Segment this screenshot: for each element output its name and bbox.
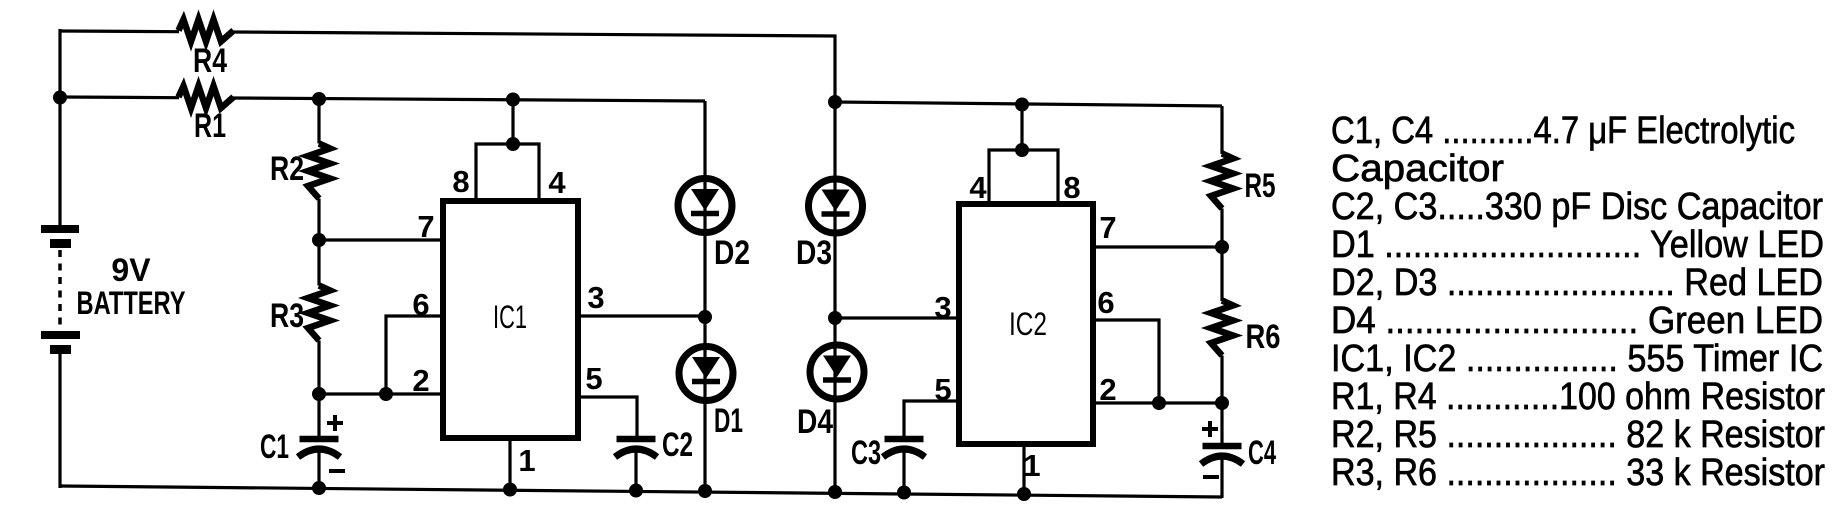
- node pin6-pin2 junction: [379, 387, 393, 401]
- wire R2 to R3 and IC1 pin7 junction: [317, 199, 320, 286]
- wire R5 to R6 lead: [1220, 209, 1223, 302]
- node V+ rail at R2: [312, 92, 326, 106]
- wire D3/D4 column: [833, 102, 836, 493]
- svg-text:R1: R1: [194, 107, 226, 145]
- svg-text:R3: R3: [270, 297, 304, 335]
- svg-text:3: 3: [587, 280, 604, 315]
- LED D2: [678, 179, 750, 273]
- svg-text:4: 4: [969, 170, 987, 205]
- svg-text:R1, R4 ............100 ohm Res: R1, R4 ............100 ohm Resistor: [1331, 376, 1825, 418]
- node V+ rail at IC1 feed: [506, 93, 520, 107]
- svg-text:5: 5: [585, 361, 602, 396]
- svg-text:IC2: IC2: [1009, 306, 1047, 342]
- wire IC1 pin3 line: [576, 314, 705, 317]
- capacitor C4 4.7uF electrolytic: [1201, 421, 1276, 477]
- wire IC2 pin6 bracket to pin2: [1091, 320, 1159, 403]
- svg-text:R2: R2: [270, 150, 304, 188]
- svg-text:IC1, IC2 ................ 555: IC1, IC2 ................ 555 Timer IC: [1331, 338, 1823, 380]
- svg-text:1: 1: [518, 443, 535, 478]
- resistor R1: [179, 86, 234, 145]
- wire IC1 pin5 line: [576, 397, 637, 436]
- svg-text:1: 1: [1023, 448, 1040, 483]
- svg-text:C4: C4: [1248, 434, 1276, 472]
- svg-text:C2, C3.....330 pF Disc Capacit: C2, C3.....330 pF Disc Capacitor: [1331, 186, 1823, 228]
- svg-text:R5: R5: [1245, 167, 1276, 205]
- node ground rail at D1: [698, 484, 712, 498]
- svg-text:R4: R4: [193, 42, 227, 80]
- svg-text:R3, R6 .................. 33 k: R3, R6 .................. 33 k Resistor: [1331, 452, 1825, 494]
- svg-text:IC1: IC1: [493, 299, 527, 335]
- wire left vertical battery top: [58, 29, 61, 226]
- wire IC2 pin2 line: [1091, 401, 1222, 404]
- wire top rail from R4 to D3 column: [233, 32, 835, 102]
- node ground rail at C2: [629, 484, 643, 498]
- svg-text:Capacitor: Capacitor: [1331, 148, 1504, 190]
- svg-text:9V: 9V: [111, 252, 151, 288]
- wire D2/D1 column: [703, 101, 706, 491]
- resistor R6: [1211, 301, 1281, 357]
- svg-text:6: 6: [412, 287, 429, 322]
- wire IC1 pin7 line: [317, 238, 445, 241]
- wire V+ rail battery to R1: [60, 95, 179, 99]
- svg-text:C2: C2: [662, 426, 693, 464]
- LED D3: [796, 179, 863, 272]
- svg-text:3: 3: [934, 290, 951, 325]
- IC2 555 timer box: [959, 204, 1093, 444]
- node IC2 bracket junction: [1015, 143, 1029, 157]
- LED D1: [679, 347, 743, 441]
- wire IC2 pin7 line: [1091, 245, 1222, 248]
- svg-text:D1: D1: [714, 402, 743, 440]
- svg-text:D3: D3: [796, 234, 832, 272]
- node R5/R6/pin7 junction: [1215, 240, 1229, 254]
- svg-text:4: 4: [548, 165, 566, 200]
- svg-text:7: 7: [417, 209, 434, 244]
- wire top rail from battery to R4: [60, 29, 179, 33]
- wire V+ rail R1 to D2 column: [233, 98, 705, 101]
- resistor R5: [1211, 154, 1276, 209]
- LED D4: [797, 345, 864, 441]
- wire IC2 bracket feed from top rail: [1020, 104, 1023, 152]
- svg-text:R6: R6: [1246, 318, 1281, 356]
- capacitor C1 4.7uF electrolytic: [260, 394, 345, 489]
- wire battery negative to bottom rail: [58, 352, 61, 488]
- battery B1 9V: [41, 225, 186, 354]
- svg-text:C1: C1: [260, 428, 289, 466]
- svg-text:R2, R5 .................. 82 k: R2, R5 .................. 82 k Resistor: [1331, 414, 1825, 456]
- svg-text:C1, C4 ..........4.7 μF Electr: C1, C4 ..........4.7 μF Electrolytic: [1331, 110, 1795, 152]
- node R3/C1/pin2 junction: [312, 387, 326, 401]
- wire R2 top lead: [317, 97, 320, 144]
- node D3/D4 pin3 junction: [828, 311, 842, 325]
- node IC1 bracket junction: [506, 137, 520, 151]
- wire IC1 supply bracket pins 8-4: [476, 144, 539, 201]
- wire right rail D3 junction to R5: [835, 102, 1222, 106]
- wire IC2 pin1 stub: [1022, 444, 1025, 496]
- wire R6 to C4 lead: [1220, 356, 1223, 449]
- wire below C4 to bottom right corner: [1220, 455, 1223, 498]
- resistor R4: [179, 20, 234, 81]
- wire R3 bottom lead: [317, 341, 320, 395]
- svg-text:D4: D4: [797, 403, 833, 441]
- IC1 555 timer box: [443, 201, 578, 438]
- node V+ rail at battery: [53, 91, 67, 105]
- resistor R2: [270, 144, 330, 199]
- node ground rail at C3: [897, 486, 911, 500]
- node ground rail at D4: [828, 485, 842, 499]
- svg-text:C3: C3: [851, 434, 881, 472]
- node R2/R3/pin7 junction: [312, 233, 326, 247]
- wire IC2 pin3 line: [835, 316, 961, 319]
- node top rail at IC2 feed: [1015, 98, 1029, 112]
- svg-text:7: 7: [1099, 210, 1116, 245]
- wire IC2 supply bracket pins 4-8: [989, 150, 1058, 204]
- svg-text:8: 8: [1063, 170, 1080, 205]
- wire IC1 pin2 line: [317, 392, 445, 395]
- svg-text:D1 ...........................: D1 ........................... Yellow LE…: [1331, 224, 1824, 266]
- node pin6-pin2 junction IC2: [1152, 396, 1166, 410]
- node ground rail at IC1 pin1: [503, 483, 517, 497]
- node R6/C4/pin2 junction: [1215, 396, 1229, 410]
- svg-text:D2: D2: [714, 234, 750, 272]
- wire IC1 bracket feed from rail: [511, 98, 514, 146]
- wire R5 top lead: [1220, 106, 1223, 154]
- svg-text:6: 6: [1097, 285, 1114, 320]
- svg-text:BATTERY: BATTERY: [77, 285, 186, 321]
- svg-text:5: 5: [934, 372, 951, 407]
- capacitor C3 330pF disc: [851, 434, 925, 494]
- node D2/D1 pin3 junction: [698, 310, 712, 324]
- resistor R3: [270, 286, 330, 341]
- wire bottom ground rail: [60, 486, 1222, 497]
- wire IC1 pin1 stub: [508, 438, 511, 490]
- node ground rail at C1: [312, 481, 326, 495]
- capacitor C2 330pF disc: [615, 426, 693, 491]
- svg-text:2: 2: [1099, 372, 1116, 407]
- svg-text:D4 ..........................: D4 .......................... Green LED: [1331, 300, 1823, 342]
- wire IC1 pin6 bracket to pin2: [386, 316, 445, 394]
- node ground rail at IC2 pin1: [1017, 487, 1031, 501]
- svg-text:2: 2: [412, 363, 429, 398]
- svg-text:8: 8: [452, 164, 469, 199]
- node top rail corner at D3: [828, 95, 842, 109]
- wire IC2 pin5 line: [904, 401, 961, 436]
- svg-text:D2, D3 .......................: D2, D3 ........................ Red LED: [1331, 262, 1823, 304]
